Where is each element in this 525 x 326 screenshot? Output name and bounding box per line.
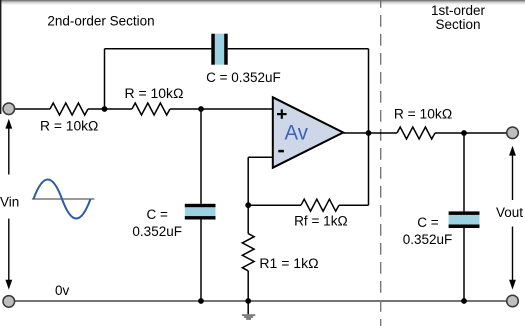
wire: shunt capacitor C2 top lead [200,109,202,204]
svg-text:0.352uF: 0.352uF [403,232,453,247]
label: 1st-order Section [431,3,486,32]
svg-text:2nd-order Section: 2nd-order Section [47,14,154,29]
junction dot: R3/C3 node [461,130,467,136]
junction dot: C2 top [198,106,204,112]
wire: ground stem [247,301,249,314]
wire: capacitor C1 to feedback vertical right [228,48,369,50]
junction dot: feedback left [102,106,108,112]
resistor R = 10k (1st-order) [397,127,435,139]
wire: capacitor C3 top lead [463,133,465,211]
resistor Rf = 1k [301,199,339,211]
Vout arrow lower [509,227,516,290]
wire: Rf to output vertical [339,204,369,206]
terminal: bottom left [3,296,15,308]
wire: op-amp inverting input [248,156,272,158]
wire: between first and second resistor [88,108,132,110]
junction dot: R1 bottom on rail [245,298,251,304]
resistor R1 = 1k (vertical) [242,234,254,271]
svg-text:R = 10kΩ: R = 10kΩ [125,86,184,101]
svg-text:1st-order: 1st-order [431,3,486,18]
svg-text:Vin: Vin [0,194,19,209]
Vout arrow upper [509,146,516,200]
wire: node to Rf [248,204,301,206]
wire: inverting input down to Rf/R1 node [247,157,249,205]
wire: capacitor C2 bottom lead [200,220,202,302]
svg-text:C =: C = [147,207,169,222]
wire: feedback top left to capacitor C1 [105,48,212,50]
wire: capacitor C3 bottom lead [463,228,465,301]
junction dot: C2 bottom on rail [198,298,204,304]
svg-text:R = 10kΩ: R = 10kΩ [40,118,98,133]
junction dot: C3 bottom on rail [461,298,467,304]
terminal: bottom right [507,295,519,307]
svg-text:C =: C = [417,215,439,230]
wire: R1 bottom lead to rail [247,271,249,301]
wire: R3 to output terminal [435,132,507,134]
Vin arrow lower [5,219,12,290]
0v rail wire [9,300,513,302]
left border [0,0,1,114]
top border [0,0,525,5]
wire: second resistor to op-amp + input [170,108,272,110]
resistor R = 10k (second) [132,103,170,115]
ground [242,314,255,320]
svg-text:0v: 0v [55,283,70,298]
section divider (dashed) [380,0,382,326]
junction dot: op-amp output [366,130,372,136]
wire: feedback vertical right down to Rf [368,49,370,205]
terminal: input [3,103,15,115]
Vin arrow upper [5,119,12,175]
op-amp U1 [273,97,343,167]
svg-text:Section: Section [435,17,480,32]
svg-text:R = 10kΩ: R = 10kΩ [394,107,452,122]
junction dot: Rf/R1 node [245,202,251,208]
capacitor C2 = 0.352uF (shunt) [185,204,216,220]
svg-text:Rf = 1kΩ: Rf = 1kΩ [294,214,348,229]
capacitor C3 = 0.352uF (1st-order) [449,211,480,228]
wire: feedback vertical left [104,49,106,109]
svg-text:C = 0.352uF: C = 0.352uF [206,70,281,85]
wire: input to R1 [15,108,50,110]
capacitor C1 = 0.352uF (feedback) [211,34,227,65]
resistor R = 10k (input, first) [50,103,88,115]
svg-text:0.352uF: 0.352uF [132,224,182,239]
svg-text:R1 = 1kΩ: R1 = 1kΩ [259,256,318,271]
svg-text:Vout: Vout [496,205,523,220]
wire: op-amp output to R3 [343,132,397,134]
sine wave source symbol [32,180,95,219]
wire: node to R1 top lead [247,205,249,233]
svg-text:Av: Av [285,120,309,144]
terminal: output [507,127,519,139]
